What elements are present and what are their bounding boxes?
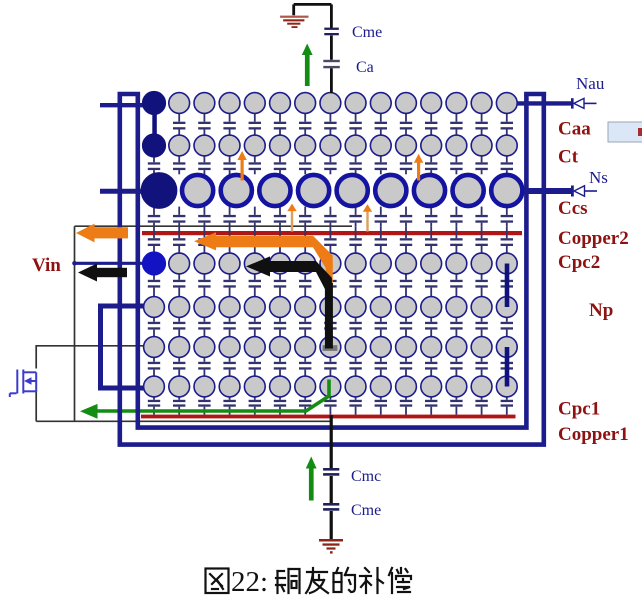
svg-text:Np: Np: [589, 300, 613, 321]
svg-text:Cme: Cme: [351, 502, 381, 519]
capacitor row Np2-Np3: [148, 318, 513, 337]
wire Vin loop top (to Copper2): [75, 225, 353, 227]
wire Vin to primary row 4: [75, 262, 145, 265]
capacitor row Ns-Copper2 (Ccs): [148, 207, 513, 227]
winding row 7: Np layer 4 turns: [144, 376, 518, 397]
winding row 2: Naux layer 2 turns: [143, 134, 518, 157]
capacitor row Naux2-Ns (Ct): [148, 156, 513, 174]
orange arrow out of Copper2 (left): [93, 227, 128, 238]
tooltip box (cut at right edge): [608, 122, 642, 142]
winding row 1: Naux layer 1 turns: [143, 92, 518, 115]
small orange arrow (Ct region, left): [241, 159, 244, 181]
winding row 3: Ns secondary turns: [141, 173, 522, 209]
winding row 4: Np layer 1 turns: [143, 252, 518, 275]
core inner boundary: [138, 95, 527, 428]
wire Vin loop left vertical: [74, 226, 76, 421]
copper foil Copper2: [142, 231, 522, 235]
svg-text:Cme: Cme: [352, 24, 382, 41]
connector Np row5-row7 left bracket: [101, 306, 145, 388]
svg-text:Cpc1: Cpc1: [558, 399, 600, 420]
capacitor row Np1-Np2: [148, 274, 513, 297]
capacitor row Naux1-Naux2: [173, 114, 513, 136]
black arrow Vin (left): [96, 268, 128, 277]
ground (bottom earth): [319, 539, 343, 554]
wire Cme to earth: [330, 511, 333, 539]
svg-text:Ns: Ns: [589, 168, 608, 187]
wire Naux lead left stub: [100, 103, 144, 107]
connector Naux row1-row2: [152, 109, 157, 140]
small orange arrow (Ccs region, left): [291, 210, 293, 232]
core top cap right: [524, 92, 546, 96]
wire Ca to winding: [330, 68, 333, 93]
wire top to earth: [294, 4, 332, 28]
wire MOSFET source down: [35, 392, 37, 421]
svg-text:Caa: Caa: [558, 119, 591, 140]
green arrowhead left (Copper1 path): [80, 404, 98, 419]
wire MOSFET drain to primary row 6: [36, 346, 144, 369]
capacitor row Np3-Np4: [148, 358, 513, 377]
green arrow up (bottom): [309, 467, 314, 501]
wire Naux lead right to diode: [516, 101, 571, 105]
svg-text:Copper2: Copper2: [558, 228, 629, 249]
wire Copper1 to Cmc: [330, 415, 333, 468]
svg-text:Ccs: Ccs: [558, 198, 588, 219]
core outer boundary: [120, 92, 544, 445]
transistor Q1 (MOSFET): [10, 370, 36, 398]
copper foil Copper1: [141, 415, 516, 419]
capacitor Cme (bottom): [323, 503, 339, 506]
capacitor Cme (top): [324, 28, 339, 30]
orange current path into Copper2: [212, 236, 313, 248]
capacitor Cmc: [323, 468, 339, 471]
caption: figure 22 copper foil compensation: [206, 569, 229, 594]
green arrow up (top, aux current): [305, 53, 310, 86]
wire Vin loop bottom (to Cmc node): [36, 420, 331, 422]
svg-text:22:: 22:: [231, 566, 268, 598]
green current path along Copper1: [95, 380, 329, 412]
svg-text:Cpc2: Cpc2: [558, 252, 600, 273]
ground (top earth): [280, 16, 308, 28]
svg-text:Ct: Ct: [558, 147, 579, 168]
connector Np row4-row5 right: [505, 264, 510, 308]
core top cap left: [118, 92, 141, 96]
capacitor Ca: [323, 60, 340, 62]
wire Ns lead left stub: [100, 189, 144, 194]
svg-text:Ca: Ca: [356, 59, 374, 76]
capacitor row Copper2-Np1 (Cpc2): [148, 226, 513, 253]
small orange arrow (Ct region, right): [417, 162, 420, 181]
wire Ns lead right to diode: [522, 188, 571, 194]
svg-text:Nau: Nau: [576, 74, 605, 93]
winding row 6: Np layer 3 turns: [144, 337, 518, 358]
diode D1 (Nau output): [571, 98, 597, 108]
svg-text:Cmc: Cmc: [351, 468, 381, 485]
wire Cme to Ca: [330, 36, 333, 60]
svg-text:Copper1: Copper1: [558, 424, 629, 445]
small orange arrow (Ccs region, right): [366, 211, 368, 232]
black current path in Np layer 1: [268, 261, 316, 272]
wire Cmc to Cme: [330, 476, 333, 503]
node Vin dot: [72, 261, 77, 266]
svg-text:Vin: Vin: [32, 255, 61, 276]
connector Np row6-row7 right: [505, 347, 510, 387]
winding row 5: Np layer 2 turns: [144, 297, 518, 318]
capacitor row Np4-Copper1 (Cpc1): [148, 397, 513, 415]
diode D2 (Ns output): [571, 186, 597, 197]
